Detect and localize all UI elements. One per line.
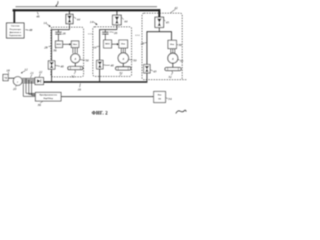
svg-text:36: 36	[53, 48, 57, 52]
valve box 40 (unit 2)	[97, 60, 103, 69]
label 40 (unit 2)	[103, 64, 110, 67]
label 44 (unit 2)	[121, 17, 123, 19]
inverter box 30 (unit 1)	[71, 41, 79, 48]
svg-text:Преобразователь: Преобразователь	[39, 94, 57, 97]
wires: inverter to motor (unit 3)	[170, 49, 172, 54]
wire: thick main bus 42	[13, 9, 161, 11]
shaft (unit 3)	[172, 63, 174, 67]
svg-text:32: 32	[168, 75, 172, 79]
wire: dc rail (unit 2)	[100, 29, 117, 31]
label 44 (unit 1)	[73, 17, 76, 19]
wire: box18 to generator	[8, 77, 14, 79]
svg-text:МОС: МОС	[57, 44, 62, 46]
svg-text:22: 22	[39, 70, 43, 74]
contactor box 44 (unit 1)	[68, 11, 70, 14]
svg-text:16: 16	[78, 88, 82, 92]
arrow 24 to 30 (unit 1)	[63, 43, 70, 45]
transducer box 36	[35, 92, 61, 101]
pump disc 32 (unit 3)	[165, 68, 181, 71]
wire: left leg upper (unit 3)	[146, 31, 148, 64]
wire: left leg lower (unit 1)	[51, 69, 53, 82]
label 26 (unit 2)	[109, 31, 113, 34]
svg-text:42: 42	[174, 6, 178, 10]
rectifier box 22	[35, 78, 44, 85]
svg-text:40: 40	[110, 64, 114, 68]
svg-text:Нар/Обор: Нар/Обор	[43, 97, 53, 100]
svg-text:ФИГ. 2: ФИГ. 2	[92, 112, 108, 117]
wire: left leg lower (unit 2)	[99, 69, 101, 82]
svg-text:44: 44	[77, 17, 81, 21]
wire: dc rail (unit 1)	[52, 29, 70, 31]
generator 20	[13, 77, 22, 86]
wire: bus right drop to box 45	[158, 9, 160, 17]
svg-text:45: 45	[166, 21, 170, 25]
contactor box 44 (unit 2)	[116, 11, 118, 15]
wire: left leg lower (unit 3)	[146, 73, 148, 83]
shaft (unit 1)	[74, 63, 76, 67]
motor (unit 1)	[71, 54, 80, 63]
svg-text:28: 28	[141, 42, 145, 46]
controller box (top-left)	[7, 23, 25, 38]
svg-text:Регулятора: Регулятора	[10, 29, 22, 31]
shaft (unit 2)	[122, 63, 124, 67]
label 43	[150, 70, 153, 71]
label 46	[37, 12, 38, 15]
pump disc 32 (unit 2)	[116, 67, 131, 70]
svg-text:24: 24	[93, 45, 97, 49]
label 50 (unit 2)	[129, 58, 133, 61]
svg-text:50: 50	[85, 59, 89, 63]
box 18 (ТД)	[3, 74, 8, 80]
wire: thin upper supply line	[16, 6, 158, 8]
svg-text:44: 44	[124, 20, 128, 24]
valve box 43 (unit 3)	[144, 65, 150, 73]
pump disc 32 (unit 1)	[68, 67, 83, 70]
label 42	[170, 9, 175, 13]
label 48	[25, 29, 28, 32]
converter box 24 (unit 1)	[55, 41, 62, 47]
svg-text:14: 14	[43, 21, 47, 25]
svg-text:20: 20	[13, 87, 17, 91]
label 45	[164, 20, 166, 22]
svg-text:46: 46	[36, 15, 40, 19]
svg-text:40: 40	[60, 65, 64, 69]
box 34	[154, 92, 166, 103]
squiggle below disc (unit 3)	[171, 71, 174, 75]
label 40 (unit 1)	[55, 65, 60, 66]
contactor box 45 (unit 3)	[155, 17, 164, 27]
wire bundle generator to rectifier	[22, 77, 35, 79]
label 34	[166, 97, 169, 98]
motor (unit 3)	[168, 53, 178, 63]
svg-text:32: 32	[71, 74, 75, 78]
svg-text:Давления и: Давления и	[9, 32, 21, 34]
wire: left leg upper (unit 2)	[99, 29, 101, 60]
svg-text:50: 50	[133, 59, 137, 63]
handwritten squiggle bottom-right	[176, 110, 186, 113]
repetition dots (gap 2)	[134, 34, 137, 37]
svg-text:Система: Система	[11, 26, 20, 28]
svg-text:34: 34	[168, 97, 172, 101]
svg-text:21: 21	[30, 71, 34, 75]
svg-text:43: 43	[153, 69, 157, 73]
svg-text:30: 30	[178, 43, 182, 47]
wires: inverter to motor (unit 1)	[72, 48, 74, 54]
wire: transducer to box 34	[61, 96, 154, 98]
svg-text:48: 48	[29, 28, 33, 32]
dashed module box 14 (unit 1)	[51, 27, 84, 77]
arrow 24 to 30 (unit 2)	[112, 43, 118, 45]
dashed module box 14 (unit 2)	[93, 27, 132, 77]
label 50 (unit 3)	[178, 59, 180, 61]
capacitor 26 (unit 1)	[57, 30, 59, 32]
wire: bus left drop to controller	[13, 9, 15, 23]
label 30 (unit 3)	[177, 43, 179, 45]
wire: box44 down to dc rail (unit 2)	[116, 25, 118, 30]
leader mark on thin line	[56, 1, 58, 6]
svg-text:14: 14	[90, 20, 94, 24]
inverter box 30 (unit 2)	[119, 40, 128, 48]
converter box 24 (unit 2)	[104, 40, 112, 48]
label 50 (unit 1)	[80, 59, 85, 62]
valve box 40 (unit 1)	[48, 61, 55, 69]
wires: inverter to motor (unit 2)	[120, 48, 122, 53]
svg-text:36: 36	[38, 103, 42, 107]
repetition dots (gap 1)	[87, 33, 90, 36]
wire: right leg (unit 3)	[171, 31, 173, 40]
svg-text:26: 26	[62, 32, 66, 36]
svg-text:Торможения: Торможения	[9, 35, 22, 37]
wire: dc rail (unit 3)	[147, 31, 172, 33]
capacitor 26 (unit 2)	[104, 30, 106, 32]
wire: left leg upper (unit 1)	[51, 29, 53, 61]
squiggle below disc (unit 1)	[73, 70, 76, 74]
svg-text:МОС: МОС	[105, 44, 110, 46]
svg-text:28: 28	[44, 45, 48, 49]
dashed module box (unit 3)	[142, 13, 182, 80]
wire: bottom manifold 16	[44, 81, 148, 83]
wire: box45 down (unit 3)	[158, 27, 160, 31]
wire taps down to transducer	[22, 84, 24, 97]
motor (unit 2)	[118, 53, 128, 63]
svg-text:26: 26	[114, 31, 118, 35]
wire: box44 down to dc rail	[69, 24, 71, 30]
inverter box 30 (unit 3)	[168, 40, 176, 48]
svg-text:50: 50	[180, 59, 184, 63]
